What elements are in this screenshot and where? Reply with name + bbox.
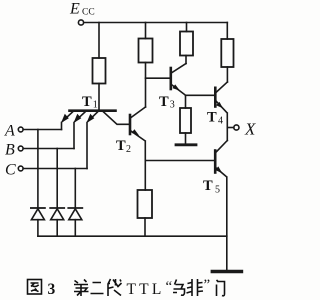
input B terminal bbox=[18, 146, 23, 151]
wire R4 to ground bbox=[185, 133, 187, 144]
input A terminal bbox=[18, 127, 23, 132]
transistor T2 base bar bbox=[129, 115, 132, 134]
ground bus bottom wire bbox=[38, 235, 227, 237]
output X terminal bbox=[234, 125, 239, 130]
transistor T1 emitter 2 bbox=[74, 112, 86, 123]
svg-text:3: 3 bbox=[170, 100, 175, 111]
wire R2 feed from bus bbox=[145, 23, 147, 39]
transistor T3 emitter bbox=[172, 84, 185, 94]
wire R1 to T1 base bbox=[98, 84, 100, 110]
caption hanzi fei (not) bbox=[187, 279, 204, 296]
resistor R2 (T2 collector) bbox=[139, 39, 153, 63]
caption hanzi yu (and) bbox=[173, 280, 185, 296]
wire T2 collector to R2 bbox=[145, 63, 147, 108]
label T5 bbox=[203, 178, 220, 196]
transistor T1 collector bbox=[103, 112, 129, 125]
wire T5 emitter to ground bbox=[226, 177, 228, 270]
svg-text:”: ” bbox=[204, 277, 211, 293]
wire emitter1 stub to A bbox=[61, 123, 63, 130]
wire X output bbox=[227, 127, 234, 129]
transistor T1 emitter 1 bbox=[61, 112, 73, 123]
wire T2 emitter down bbox=[144, 141, 146, 161]
transistor T1 base bar bbox=[70, 109, 116, 112]
wire C to diode D3 bbox=[74, 169, 76, 208]
transistor T4 emitter bbox=[216, 102, 226, 113]
caption hanzi tu (figure) bbox=[28, 280, 42, 295]
transistor T1 emitter 3 bbox=[87, 112, 98, 123]
caption hanzi men (gate) bbox=[217, 280, 225, 296]
wire B to diode D2 bbox=[56, 149, 58, 208]
resistor R3 (T3 collector) bbox=[180, 32, 193, 56]
svg-text:T: T bbox=[159, 94, 169, 110]
wire Rc feed from bus bbox=[226, 23, 228, 40]
transistor T5 collector bbox=[216, 141, 227, 153]
svg-text:T: T bbox=[82, 94, 92, 110]
svg-text:1: 1 bbox=[93, 100, 98, 111]
resistor R1 (T1 base) bbox=[93, 58, 106, 84]
svg-text:X: X bbox=[244, 120, 256, 139]
svg-text:“: “ bbox=[166, 279, 173, 295]
resistor Rc (output collector) bbox=[221, 39, 233, 67]
wire input B bbox=[23, 148, 74, 150]
ground GND2 bbox=[212, 270, 241, 273]
label T2 bbox=[116, 138, 131, 155]
wire T3 emitter to T4 base bbox=[186, 94, 215, 96]
svg-text:T: T bbox=[116, 138, 126, 154]
wire input C bbox=[23, 168, 87, 170]
wire input A bbox=[23, 129, 61, 131]
svg-text:5: 5 bbox=[215, 185, 220, 196]
wire R1 feed from bus bbox=[98, 23, 100, 59]
svg-text:A: A bbox=[4, 123, 15, 140]
resistor R4 (T4 base to ground) bbox=[180, 108, 191, 133]
input C terminal bbox=[18, 166, 23, 171]
transistor T5 base bar bbox=[214, 151, 217, 173]
Ecc terminal bbox=[78, 20, 83, 25]
transistor T5 emitter bbox=[215, 166, 226, 176]
transistor T2 collector bbox=[131, 107, 146, 118]
svg-text:C: C bbox=[5, 162, 16, 179]
svg-text:4: 4 bbox=[218, 116, 223, 127]
svg-text:E: E bbox=[69, 1, 80, 18]
svg-text:2: 2 bbox=[126, 144, 131, 155]
wire T4 collector to Rc bbox=[226, 67, 228, 82]
label T1 bbox=[82, 94, 98, 111]
svg-text:3: 3 bbox=[48, 281, 56, 298]
label Ecc bbox=[69, 1, 95, 18]
wire R5 to ground bus bbox=[144, 218, 146, 236]
transistor T2 emitter bbox=[131, 129, 144, 140]
transistor T3 collector bbox=[172, 64, 186, 73]
svg-text:B: B bbox=[5, 142, 15, 159]
wire T3 emitter to R4 bbox=[185, 95, 187, 108]
svg-text:CC: CC bbox=[82, 8, 95, 18]
svg-text:T: T bbox=[203, 178, 213, 194]
wire emitter2 stub to B bbox=[73, 123, 75, 149]
diode D3 bbox=[68, 208, 82, 236]
wire R3 feed from bus bbox=[186, 23, 188, 32]
transistor T4 collector bbox=[217, 82, 228, 92]
wire T4 emitter to X node bbox=[226, 113, 228, 141]
caption hanzi di (ordinal) bbox=[74, 280, 89, 297]
diode D1 bbox=[31, 208, 45, 236]
wire T2 collector node to T3 base bbox=[146, 77, 170, 79]
resistor R5 (T2 emitter to ground) bbox=[138, 190, 153, 218]
caption figure 3 text bbox=[28, 277, 225, 298]
caption hanzi er (two) bbox=[91, 283, 104, 294]
caption hanzi dai (generation) bbox=[108, 279, 122, 296]
svg-text:T: T bbox=[207, 110, 217, 126]
power rail Ecc top bus wire bbox=[84, 22, 227, 24]
label T4 bbox=[207, 110, 223, 127]
wire emitter3 stub to C bbox=[86, 123, 88, 169]
svg-text:TTL: TTL bbox=[127, 281, 165, 298]
wire T2 emitter to R5 bbox=[144, 161, 146, 191]
ground GND1 bbox=[176, 143, 196, 146]
node T2 emitter junction wire to T5 base bbox=[145, 160, 214, 162]
diode D2 bbox=[50, 208, 64, 236]
transistor T3 base bar bbox=[170, 68, 173, 89]
label T3 bbox=[159, 94, 175, 111]
wire A to diode D1 bbox=[37, 130, 39, 208]
wire T3 collector to R3 bbox=[185, 56, 187, 64]
transistor T4 base bar bbox=[214, 88, 217, 107]
